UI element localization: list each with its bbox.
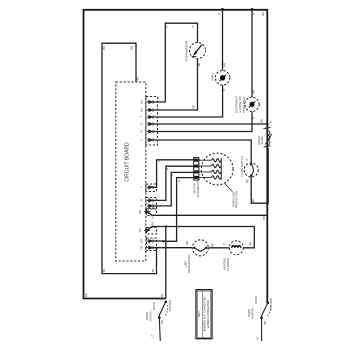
svg-text:OPEN: OPEN [254,296,258,304]
svg-text:● WIRES CONNECTED: ● WIRES CONNECTED [206,300,210,328]
svg-text:W: W [165,167,169,170]
svg-text:Y: Y [140,186,144,188]
wire: motor connector 4th to lower junction [163,178,194,242]
svg-text:CONNECTOR: CONNECTOR [196,180,200,198]
svg-text:W: W [256,337,260,340]
wire: dispenser bottom to pin5 [153,112,252,132]
svg-text:R: R [251,13,255,15]
corner color labels [84,12,273,325]
svg-text:R: R [177,180,181,182]
connector dashed box pin11 [147,228,157,235]
motor M1 [201,153,233,185]
svg-text:R: R [222,243,226,245]
svg-text:BR: BR [160,320,164,324]
pins 8-9 [147,199,153,208]
node junction left loop [155,247,157,249]
wire: thermistor bottom to pin2 [153,59,198,111]
svg-text:BR: BR [192,105,196,109]
pins upper group [147,100,153,141]
float switch [244,163,258,177]
svg-text:BK: BK [130,46,134,50]
svg-text:B: B [170,174,174,176]
svg-text:BU: BU [140,108,144,112]
door switch 1 [158,301,168,342]
svg-text:R: R [222,89,226,91]
svg-text:CLOSED: CLOSED [168,300,172,312]
svg-text:OR: OR [140,239,144,243]
node: dispenser feed junction [251,8,254,11]
wire: thermistor upper loop (pin1 to thermistor top) [153,23,198,102]
svg-text:THERMISTOR: THERMISTOR [184,40,188,61]
node junction door switch 1 drop [165,225,167,227]
thermistor TH1 [190,43,206,59]
key legend box [196,290,212,339]
connector dashed box pins 12-13 [147,238,157,251]
svg-text:W: W [150,216,154,219]
svg-text:VENT: VENT [211,73,215,81]
svg-text:B: B [140,205,144,207]
scan fold speckle left [63,28,65,340]
svg-text:VALVE: VALVE [260,136,264,145]
svg-text:R: R [245,158,249,160]
svg-text:BR: BR [262,216,266,220]
wire: pin13 to limit thermostat [153,247,192,249]
svg-text:Y: Y [157,161,161,163]
svg-text:CIRCUIT BOARD: CIRCUIT BOARD [125,142,131,182]
overload protector lead [225,183,233,191]
pin10 [144,210,149,213]
svg-text:BU: BU [140,100,144,104]
svg-text:B: B [191,25,195,27]
svg-text:BK: BK [84,293,88,297]
svg-text:PARTIAL: PARTIAL [250,307,254,319]
svg-text:BK: BK [197,63,201,67]
water valve on rail [264,127,272,147]
motor connector block [194,158,212,180]
svg-text:OR: OR [222,63,226,67]
svg-text:BR: BR [263,321,267,325]
wire: door switch 1 drop [165,227,167,299]
connector dashed box pin7 [146,184,157,192]
node: vent feed junction [221,8,224,11]
svg-text:BK: BK [260,119,264,123]
wire: vent bottom to pin3 [153,85,223,117]
wire: float switch return to water valve [251,148,268,203]
wire: big left loop [102,43,157,273]
svg-text:SWITCH: SWITCH [148,310,152,321]
svg-text:PROTECTOR: PROTECTOR [235,191,239,209]
svg-text:✚ WIRES NOT CONNECTED: ✚ WIRES NOT CONNECTED [202,297,206,332]
svg-text:BK: BK [160,294,164,298]
svg-text:DISPENSER: DISPENSER [242,96,246,112]
svg-text:BK: BK [102,269,106,273]
scan fold speckle right [296,30,298,345]
svg-text:CLOSED: CLOSED [269,298,273,310]
door switch 2 [260,302,270,342]
svg-text:KEY: KEY [197,311,201,317]
svg-text:OR: OR [140,245,144,249]
svg-text:OR: OR [185,241,189,245]
wire: pin9 to motor connector [153,172,194,206]
limit thermostat [192,240,208,256]
heating element [229,241,243,255]
svg-text:BR: BR [138,210,142,214]
pin11 [144,229,149,232]
svg-text:W: W [140,199,144,202]
svg-text:BK: BK [251,199,255,203]
connector dashed box pins 8-9 [146,198,157,209]
vent solenoid [215,71,230,86]
svg-text:BK: BK [245,179,249,183]
power rail loop (outer frame) [84,10,268,303]
svg-text:R: R [217,13,221,15]
svg-text:BU: BU [138,228,142,232]
pin labels lower [138,186,144,250]
svg-text:T: T [140,116,144,118]
svg-text:BK: BK [136,77,140,81]
svg-text:B: B [165,25,169,27]
wire: pin7 to motor connector [153,160,194,188]
wire: dispenser feed from rail [251,10,253,98]
connector dashed box pin10 [147,209,157,216]
wire: pin12 stub [153,240,163,242]
svg-text:W: W [140,130,144,133]
svg-text:OPEN: OPEN [152,302,156,310]
svg-text:BU: BU [150,222,154,226]
svg-text:R: R [252,117,256,119]
svg-text:ELEMENT: ELEMENT [226,257,230,271]
svg-text:FLOAT SWITCH: FLOAT SWITCH [240,156,244,177]
wire: pin11 run to heating element right [147,227,254,248]
svg-text:Y: Y [140,139,144,141]
connector dashed box upper pins [146,97,158,146]
wire: water valve feed (pin4 to rail) [153,123,267,125]
node junction pin12 [162,240,164,242]
wire: pin8 to motor connector [153,166,194,200]
svg-text:THERMOSTAT: THERMOSTAT [187,254,191,273]
svg-text:BK: BK [102,46,106,50]
svg-text:W: W [268,120,272,123]
wire: pin10 long run to door switch 2 [147,212,267,216]
wire: vent feed [222,10,224,71]
circuit board [116,82,146,261]
pins 12-13 [147,239,153,249]
svg-text:LT: LT [150,334,154,337]
detergent and rinse aid dispenser [245,97,259,111]
svg-text:BK: BK [251,90,255,94]
svg-text:BR: BR [248,242,252,246]
svg-text:R: R [140,123,144,125]
svg-text:BK: BK [151,269,155,273]
svg-text:BK: BK [261,12,265,16]
wire: LT to HE [208,247,229,249]
pin7 [147,186,153,189]
pin labels upper [140,100,144,141]
svg-text:BK: BK [211,243,215,247]
wire: float switch feed from pin6 [153,140,251,163]
